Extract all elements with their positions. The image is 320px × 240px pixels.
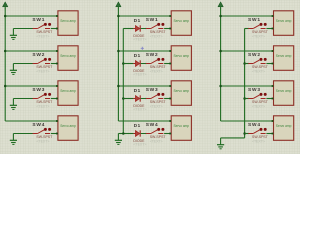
wire bus to switch row 2 right column [245,63,249,65]
pin dot top row 4 right column [272,120,274,122]
junction node row 2 right column [219,50,222,53]
svg-text:SW3: SW3 [248,87,261,93]
svg-text:<TEXT>: <TEXT> [36,104,49,108]
wire diode to switch row 1 middle column [145,28,146,30]
pin dot top row 2 left column [56,50,58,52]
junction node row 1 left column [4,15,7,18]
svg-text:SW-SPST: SW-SPST [150,65,167,69]
svg-text:Servo amp: Servo amp [60,89,76,93]
wire ground to switch row 2 left column [13,63,33,65]
diode D1 [133,95,145,101]
wire switch to box row 4 left column [51,133,57,135]
wire bus to switch row 4 right column [245,133,249,135]
diode D1 [133,25,145,31]
sub-circuit box U12 [274,116,294,141]
pin dot top row 3 right column [272,85,274,87]
switch SW4 (SW-SPST) [33,128,52,134]
svg-text:<TEXT>: <TEXT> [150,139,163,143]
junction node row 1 middle column [117,15,120,18]
pin dot top row 1 right column [272,15,274,17]
svg-text:<TEXT>: <TEXT> [133,38,146,42]
svg-text:SW4: SW4 [146,122,159,128]
svg-text:SW-SPST: SW-SPST [150,30,167,34]
wire switch to box row 1 left column [51,28,57,30]
switch common bus wire right column [244,29,246,138]
wire switch to box row 3 right column [266,98,272,100]
wire switch bus to ground rail right column [221,137,245,139]
svg-text:D1: D1 [134,18,141,23]
svg-text:<TEXT>: <TEXT> [133,108,146,112]
ground symbol row 2 left column [10,64,17,75]
pin dot bottom row 2 left column [56,63,58,65]
switch SW3 (SW-SPST) [33,93,52,99]
junction node switch bus row 2 right column [243,62,246,65]
svg-text:SW3: SW3 [146,87,159,93]
svg-text:Servo amp: Servo amp [60,19,76,23]
pin dot top row 2 right column [272,50,274,52]
pin dot top row 2 middle column [169,50,171,52]
wire diode bus to diode row 1 middle column [123,28,133,30]
wire switch to box row 3 left column [51,98,57,100]
pin dot top row 3 middle column [169,85,171,87]
ground symbol middle column [115,134,122,145]
wire power rail to box row 3 middle column [118,85,170,87]
switch SW1 (SW-SPST) [33,23,52,29]
sub-circuit box U1 [58,11,78,36]
svg-text:SW1: SW1 [146,17,159,23]
power bus wire right column [220,9,222,122]
ground symbol right column [217,138,224,149]
svg-text:SW-SPST: SW-SPST [252,100,269,104]
wire power rail to box row 2 right column [221,50,273,52]
pin dot bottom row 4 left column [56,133,58,135]
svg-text:SW-SPST: SW-SPST [36,65,53,69]
svg-text:Servo amp: Servo amp [174,54,190,58]
junction node switch bus row 4 right column [243,132,246,135]
junction node row 2 left column [4,50,7,53]
pin dot top row 3 left column [56,85,58,87]
pin dot top row 1 left column [56,15,58,17]
svg-text:<TEXT>: <TEXT> [150,69,163,73]
switch SW1 (SW-SPST) [248,23,267,29]
svg-text:SW-SPST: SW-SPST [150,135,167,139]
svg-text:SW-SPST: SW-SPST [252,65,269,69]
svg-text:<TEXT>: <TEXT> [252,34,265,38]
sub-circuit box U5 [171,11,191,36]
power bus wire left column [4,9,6,122]
wire switch to box row 3 middle column [164,98,170,100]
svg-text:<TEXT>: <TEXT> [252,69,265,73]
sub-circuit box U7 [171,81,191,106]
svg-text:SW4: SW4 [32,122,45,128]
ground symbol row 4 left column [10,134,17,145]
svg-text:<TEXT>: <TEXT> [150,34,163,38]
switch SW2 (SW-SPST) [33,58,52,64]
switch SW3 (SW-SPST) [146,93,165,99]
svg-text:SW-SPST: SW-SPST [36,30,53,34]
pin dot top row 4 middle column [169,120,171,122]
pin dot bottom row 2 right column [272,63,274,65]
junction node row 3 left column [4,85,7,88]
svg-text:<TEXT>: <TEXT> [133,143,146,147]
junction node diode bus row 2 middle column [122,62,125,65]
wire power rail to box row 4 left column [5,120,57,122]
wire power rail to box row 4 right column [221,120,273,122]
power symbol (arrow) left column [3,2,8,9]
svg-text:SW-SPST: SW-SPST [150,100,167,104]
wire diode to switch row 3 middle column [145,98,146,100]
sub-circuit box U3 [58,81,78,106]
ground symbol row 3 left column [10,99,17,110]
pin dot bottom row 1 right column [272,28,274,30]
power symbol (arrow) middle column [116,2,121,9]
pin dot bottom row 3 left column [56,98,58,100]
svg-text:Servo amp: Servo amp [60,54,76,58]
wire diode bus to diode row 3 middle column [123,98,133,100]
pin dot bottom row 1 left column [56,28,58,30]
sub-circuit box U4 [58,116,78,141]
sub-circuit box U2 [58,46,78,71]
wire power rail to box row 3 left column [5,85,57,87]
sub-circuit box U10 [274,46,294,71]
switch SW4 (SW-SPST) [248,128,267,134]
svg-text:D1: D1 [134,53,141,58]
svg-text:<TEXT>: <TEXT> [133,73,146,77]
sub-circuit box U9 [274,11,294,36]
svg-text:D1: D1 [134,88,141,93]
wire switch to box row 4 middle column [164,133,170,135]
power bus wire middle column [117,9,119,122]
wire switch to box row 2 right column [266,63,272,65]
wire diode to switch row 4 middle column [145,133,146,135]
svg-text:Servo amp: Servo amp [276,89,292,93]
pin dot top row 1 middle column [169,15,171,17]
junction node diode bus bottom middle column [122,132,125,135]
svg-text:Servo amp: Servo amp [276,54,292,58]
wire switch to box row 1 middle column [164,28,170,30]
svg-text:SW2: SW2 [32,52,45,58]
wire ground to switch row 4 left column [13,133,33,135]
sub-circuit box U8 [171,116,191,141]
wire power rail to box row 3 right column [221,85,273,87]
svg-text:<TEXT>: <TEXT> [36,34,49,38]
svg-text:SW1: SW1 [248,17,261,23]
diode anode bus wire middle column [122,29,124,134]
wire diode bus to ground middle column [118,133,133,135]
svg-text:SW-SPST: SW-SPST [252,30,269,34]
switch SW2 (SW-SPST) [146,58,165,64]
wire power rail to box row 2 middle column [118,50,170,52]
svg-text:Servo amp: Servo amp [60,124,76,128]
svg-text:SW2: SW2 [146,52,159,58]
diode D1 [133,130,145,136]
wire power rail to box row 1 left column [5,15,57,17]
switch SW1 (SW-SPST) [146,23,165,29]
power symbol (arrow) right column [218,2,223,9]
pin dot bottom row 4 middle column [169,133,171,135]
wire ground to switch row 3 left column [13,98,33,100]
svg-text:SW-SPST: SW-SPST [36,100,53,104]
svg-text:<TEXT>: <TEXT> [36,69,49,73]
pin dot bottom row 3 middle column [169,98,171,100]
svg-text:<TEXT>: <TEXT> [252,139,265,143]
svg-text:SW-SPST: SW-SPST [36,135,53,139]
wire diode to switch row 2 middle column [145,63,146,65]
svg-text:Servo amp: Servo amp [276,19,292,23]
ground symbol row 1 left column [10,29,17,40]
svg-text:SW-SPST: SW-SPST [252,135,269,139]
wire ground to switch row 1 left column [13,28,33,30]
wire switch to box row 4 right column [266,133,272,135]
svg-text:<TEXT>: <TEXT> [150,104,163,108]
pin dot bottom row 2 middle column [169,63,171,65]
wire switch to box row 2 left column [51,63,57,65]
wire bus to switch row 3 right column [245,98,249,100]
switch SW4 (SW-SPST) [146,128,165,134]
junction node row 2 middle column [117,50,120,53]
junction node diode bus row 3 middle column [122,97,125,100]
sub-circuit box U6 [171,46,191,71]
junction node row 1 right column [219,15,222,18]
pin dot bottom row 3 right column [272,98,274,100]
svg-text:SW2: SW2 [248,52,261,58]
wire switch to box row 1 right column [266,28,272,30]
pin dot bottom row 1 middle column [169,28,171,30]
svg-text:Servo amp: Servo amp [276,124,292,128]
wire power rail to box row 1 right column [221,15,273,17]
wire power rail to box row 2 left column [5,50,57,52]
switch SW3 (SW-SPST) [248,93,267,99]
svg-text:Servo amp: Servo amp [174,124,190,128]
junction node row 3 right column [219,85,222,88]
wire power rail to box row 1 middle column [118,15,170,17]
origin marker cross [141,47,144,50]
svg-text:<TEXT>: <TEXT> [252,104,265,108]
svg-text:SW1: SW1 [32,17,45,23]
svg-text:<TEXT>: <TEXT> [36,139,49,143]
wire bus to switch row 1 right column [245,28,249,30]
junction node switch bus row 3 right column [243,97,246,100]
svg-text:SW3: SW3 [32,87,45,93]
svg-text:Servo amp: Servo amp [174,19,190,23]
junction node row 3 middle column [117,85,120,88]
svg-text:Servo amp: Servo amp [174,89,190,93]
wire power rail to box row 4 middle column [118,120,170,122]
wire switch to box row 2 middle column [164,63,170,65]
pin dot bottom row 4 right column [272,133,274,135]
switch SW2 (SW-SPST) [248,58,267,64]
svg-text:D1: D1 [134,123,141,128]
svg-text:SW4: SW4 [248,122,261,128]
sub-circuit box U11 [274,81,294,106]
diode D1 [133,60,145,66]
pin dot top row 4 left column [56,120,58,122]
wire diode bus to diode row 2 middle column [123,63,133,65]
